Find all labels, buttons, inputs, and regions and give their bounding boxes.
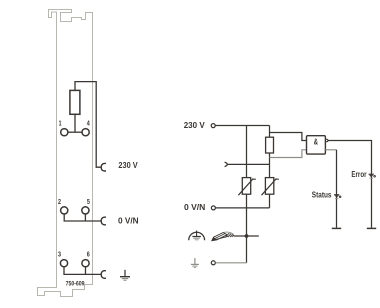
fuse F1 (module) [70,90,80,114]
wire earth terminal to junction [215,262,246,264]
wire terminal1-terminal4 bar [68,131,81,133]
svg-text:750-609: 750-609 [66,281,85,288]
wire after fuse to AND gate input B [270,150,307,158]
earth ground symbol (schematic, gray) [191,258,199,268]
svg-text:5: 5 [87,197,90,206]
screwdriver tool icon [212,232,234,241]
wire fuse to varistor RV2 [269,153,271,178]
wire N rail vertical [246,126,248,263]
svg-text:4: 4 [87,119,90,128]
wire 230V rail [215,125,269,127]
rail end bar (Status) [332,227,341,229]
LED indicator Error [369,174,376,178]
terminal 2 [61,207,68,214]
LED indicator Status [334,195,341,199]
svg-text:Status: Status [312,191,332,200]
varistor RV2 [262,178,279,196]
terminal 5 [82,207,89,214]
svg-text:2: 2 [58,197,61,206]
terminal 1 [61,129,68,136]
wire fuse to terminal bar 1-4 [74,114,76,132]
module 750-609 case outline [38,10,93,297]
wire AND to Status LED line [325,149,336,151]
wire earth branch to junction [234,235,259,237]
svg-text:0 V/N: 0 V/N [118,216,139,225]
node earth input terminal [211,261,215,265]
inverted output bubble [325,139,328,142]
svg-text:&: & [314,138,318,147]
wire fuse top to 230V clamp [75,82,101,168]
clamp contact 0V/N [101,217,106,225]
wire jumper contact to L rail [227,163,269,165]
svg-text:3: 3 [58,250,61,259]
terminal 3 [60,260,67,267]
wire AND output to Error LED line [328,141,372,228]
svg-text:230 V: 230 V [184,121,206,130]
power jumper contact chevron [225,162,228,167]
terminal 4 [82,129,89,136]
node 230V input terminal [211,124,215,128]
wire terminals 3,6 to earth clamp [64,267,101,275]
svg-text:1: 1 [59,119,62,128]
fuse F1 (schematic) [266,137,274,153]
terminal 6 [82,260,89,267]
rail end bar (Error) [367,227,376,229]
wire varistor RV2 bottom to N rail [269,194,271,208]
svg-text:Error: Error [351,170,366,179]
svg-text:230 V: 230 V [118,161,138,170]
earth ground symbol (module) [120,270,130,281]
wire 0V/N rail [216,207,270,209]
functional earth symbol [189,231,205,241]
svg-text:0 V/N: 0 V/N [184,203,205,212]
svg-text:6: 6 [87,250,90,259]
clamp contact earth [101,271,106,279]
AND gate U1 [307,136,326,154]
node 0V/N input terminal [211,206,215,210]
wire terminals 2,5 to 0V clamp [64,214,101,221]
varistor RV1 [238,178,256,196]
wire L rail to AND gate input A [270,133,307,141]
wire L branch down to fuse [269,126,271,138]
clamp contact 230V [101,163,106,171]
junction dot [245,234,249,238]
